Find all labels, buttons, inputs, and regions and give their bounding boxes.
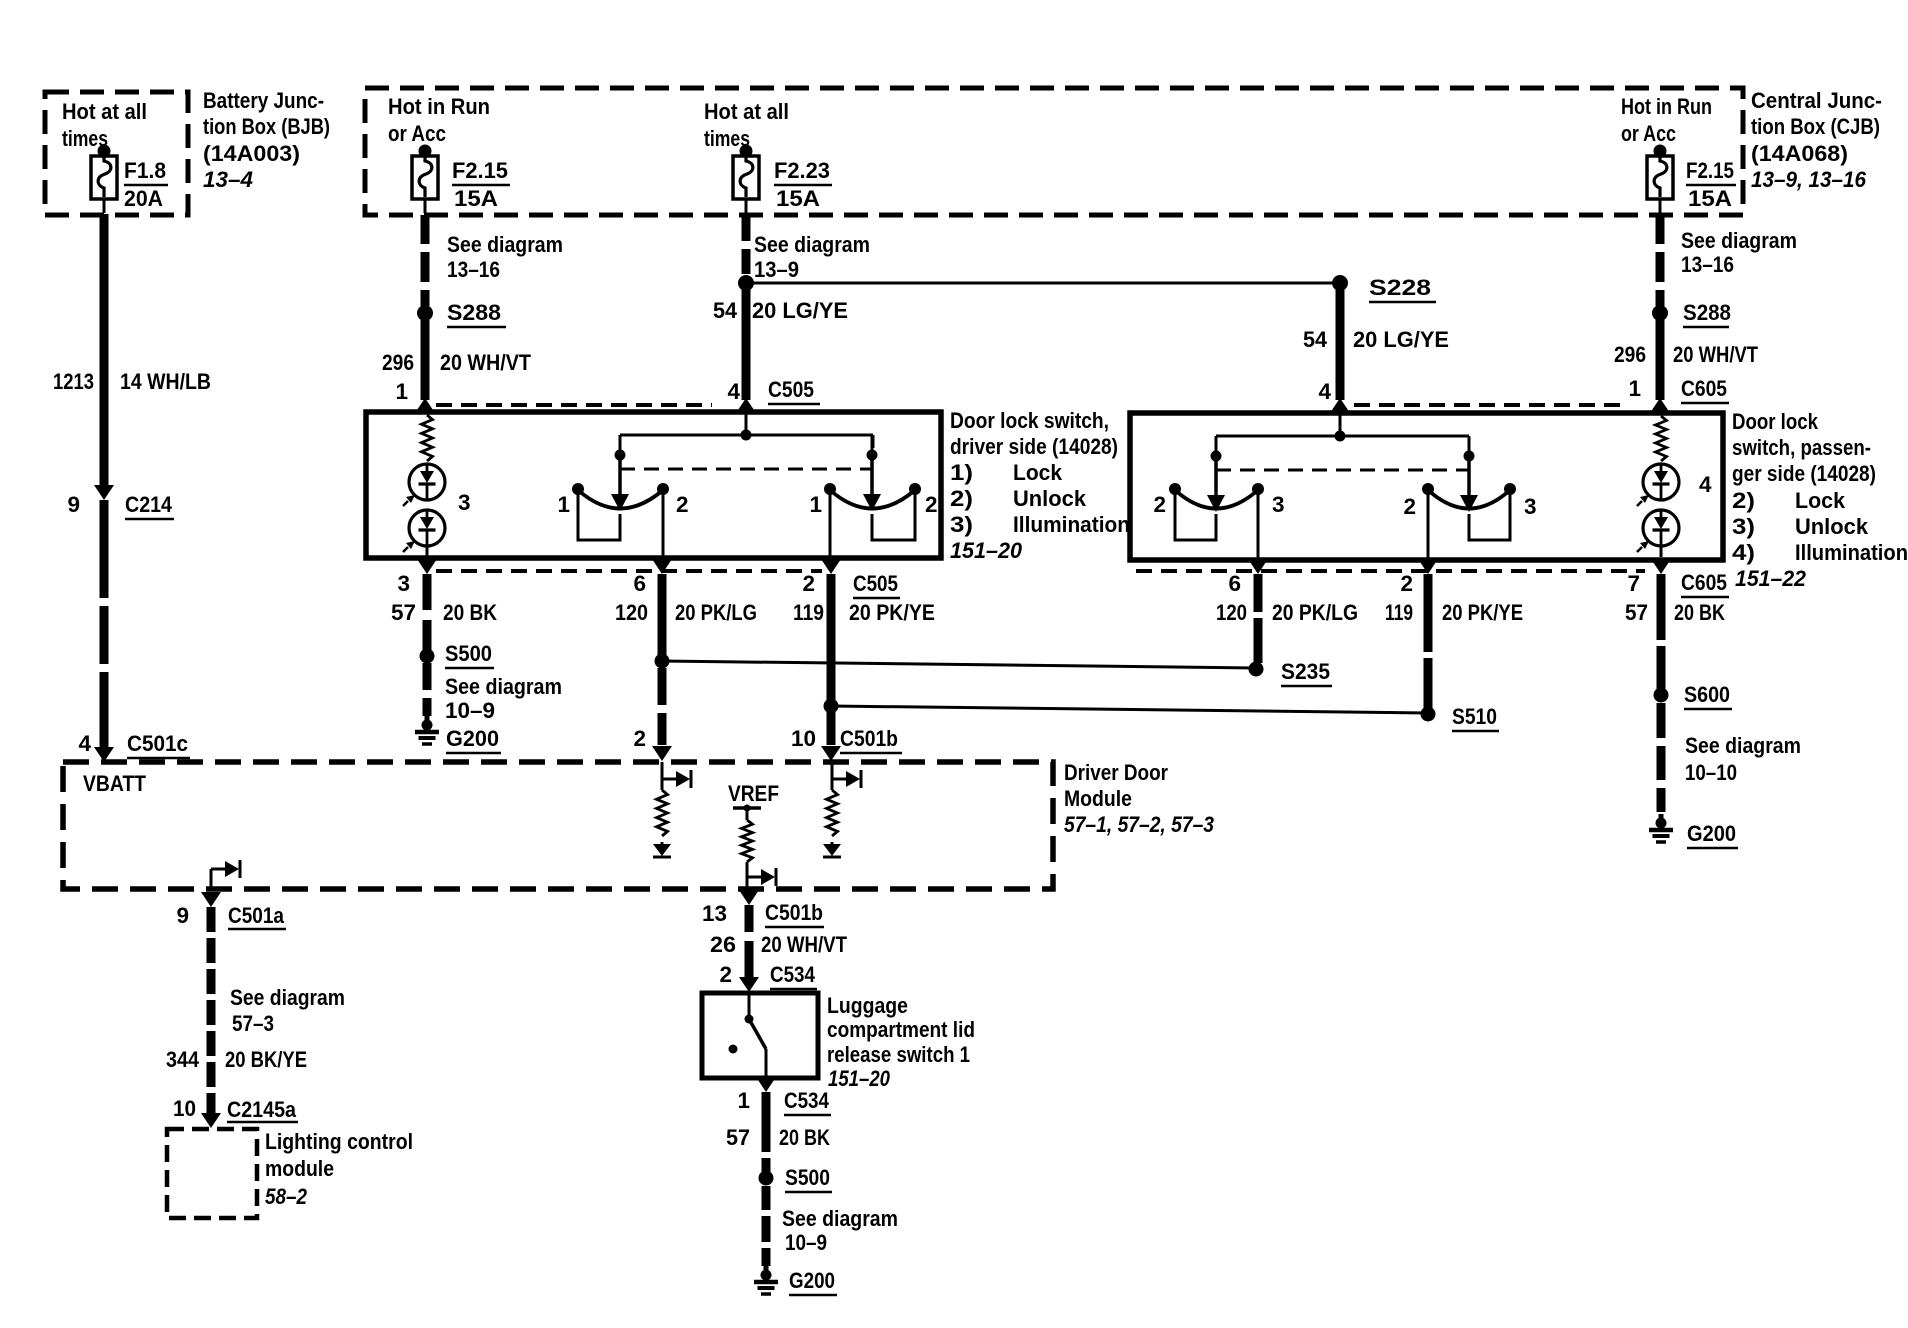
svg-text:4: 4 — [78, 731, 91, 756]
pin 2 arrow out of driver switch — [821, 559, 841, 574]
svg-text:20 PK/YE: 20 PK/YE — [1442, 600, 1523, 625]
svg-text:1: 1 — [395, 379, 408, 404]
pin 4 arrow into driver door lock switch — [736, 398, 756, 413]
svg-text:13–9, 13–16: 13–9, 13–16 — [1751, 167, 1866, 192]
svg-text:Hot in Run: Hot in Run — [1621, 94, 1712, 119]
svg-text:times: times — [62, 126, 108, 151]
svg-text:344: 344 — [166, 1047, 199, 1072]
pin 13 arrow out of module C501b — [739, 890, 759, 905]
svg-text:Illumination: Illumination — [1013, 512, 1130, 537]
svg-text:Luggage: Luggage — [827, 993, 908, 1018]
svg-text:switch, passen-: switch, passen- — [1732, 435, 1871, 460]
svg-text:F1.8: F1.8 — [124, 158, 166, 183]
svg-text:S288: S288 — [1683, 300, 1731, 325]
svg-text:10: 10 — [173, 1096, 196, 1121]
svg-text:2: 2 — [1403, 494, 1416, 519]
pin 10 arrow into lighting control module — [201, 1113, 221, 1128]
fuse F2.15 15A (right) — [1654, 145, 1667, 158]
splice S235 — [1249, 662, 1264, 677]
driver unlock switch (pins 1-2 right) — [867, 450, 878, 461]
svg-text:296: 296 — [382, 350, 414, 375]
driver door module box — [63, 762, 1053, 889]
door lock switch driver side box — [366, 412, 941, 558]
lighting control module box — [167, 1129, 257, 1218]
svg-text:151–20: 151–20 — [828, 1066, 890, 1091]
svg-text:57: 57 — [391, 600, 416, 625]
svg-text:release switch 1: release switch 1 — [827, 1042, 970, 1067]
svg-text:120: 120 — [1216, 600, 1247, 625]
svg-text:20 PK/LG: 20 PK/LG — [675, 600, 757, 625]
svg-text:Battery Junc-: Battery Junc- — [203, 88, 324, 113]
svg-text:C505: C505 — [853, 571, 898, 596]
pin 1 arrow into driver door lock switch — [415, 398, 435, 413]
svg-text:C2145a: C2145a — [227, 1097, 296, 1122]
splice S228 — [1332, 275, 1348, 291]
wire 54 20 LG/YE middle, splice to S228 — [742, 215, 751, 241]
mechanical link dashed (passenger) — [1216, 469, 1469, 472]
wire from C214 to C501c — [100, 500, 109, 598]
wire S500 to G200 (luggage) — [762, 1186, 771, 1210]
luggage switch contacts and blade — [748, 995, 751, 1016]
svg-text:10–9: 10–9 — [445, 698, 495, 723]
illumination lamp 2 driver — [409, 510, 445, 546]
svg-text:ger side (14028): ger side (14028) — [1732, 461, 1876, 486]
svg-text:54: 54 — [1303, 327, 1327, 352]
svg-text:13–4: 13–4 — [203, 167, 253, 192]
svg-text:2): 2) — [950, 486, 973, 511]
illumination lamp 1 driver — [409, 464, 445, 500]
wire 119 20 PK/YE passenger pin 2 to S510 — [1424, 574, 1433, 652]
svg-text:20 WH/VT: 20 WH/VT — [1673, 342, 1758, 367]
svg-text:13: 13 — [702, 901, 727, 926]
svg-text:20 PK/YE: 20 PK/YE — [849, 600, 935, 625]
svg-text:15A: 15A — [454, 186, 498, 211]
svg-text:1213: 1213 — [53, 369, 94, 394]
svg-text:See diagram: See diagram — [754, 232, 870, 257]
pin 2 arrow into luggage switch — [739, 977, 759, 992]
svg-text:3: 3 — [1272, 492, 1285, 517]
svg-text:2): 2) — [1732, 488, 1755, 513]
svg-text:57–1, 57–2, 57–3: 57–1, 57–2, 57–3 — [1064, 812, 1214, 837]
svg-text:20 WH/VT: 20 WH/VT — [761, 932, 847, 957]
svg-text:151–20: 151–20 — [950, 538, 1022, 563]
svg-text:C534: C534 — [784, 1088, 829, 1113]
svg-text:C501b: C501b — [765, 900, 823, 925]
driver switch feed tee — [741, 430, 752, 441]
svg-text:Module: Module — [1064, 786, 1132, 811]
svg-text:10–9: 10–9 — [785, 1230, 827, 1255]
svg-text:4: 4 — [1318, 379, 1331, 404]
svg-text:F2.15: F2.15 — [452, 158, 508, 183]
wire 57 20 BK passenger pin 7 to S600 — [1657, 574, 1666, 640]
svg-text:(14A003): (14A003) — [203, 141, 300, 166]
svg-text:6: 6 — [1228, 571, 1241, 596]
pin 1 arrow into passenger door lock switch — [1650, 398, 1670, 413]
svg-text:S235: S235 — [1281, 659, 1330, 684]
wire 344 20 BK/YE (dashed) to lighting control module — [207, 907, 216, 932]
svg-text:20 BK: 20 BK — [443, 600, 498, 625]
svg-text:151–22: 151–22 — [1735, 566, 1806, 591]
svg-text:4: 4 — [1699, 472, 1712, 497]
svg-text:120: 120 — [615, 600, 648, 625]
svg-text:F2.15: F2.15 — [1686, 158, 1734, 183]
svg-text:Lighting control: Lighting control — [265, 1129, 413, 1154]
svg-text:Door lock switch,: Door lock switch, — [950, 408, 1109, 433]
splice junction to S510 — [824, 699, 839, 714]
svg-text:9: 9 — [176, 903, 189, 928]
svg-text:57: 57 — [726, 1125, 750, 1150]
svg-text:20 BK/YE: 20 BK/YE — [225, 1047, 307, 1072]
pin 10 arrow into driver door module — [821, 746, 841, 761]
svg-text:57–3: 57–3 — [232, 1011, 274, 1036]
svg-text:4): 4) — [1732, 540, 1755, 565]
svg-text:1: 1 — [557, 492, 570, 517]
svg-text:or Acc: or Acc — [1621, 121, 1676, 146]
ground G200 (luggage) — [764, 1266, 769, 1276]
svg-text:20 BK: 20 BK — [779, 1125, 831, 1150]
svg-text:Illumination: Illumination — [1795, 540, 1908, 565]
module input pin 2: branch arrow and pull-up resistor — [661, 762, 664, 790]
wire 296 20 WH/VT left, splice S288 — [421, 215, 430, 244]
svg-text:2: 2 — [633, 726, 646, 751]
splice junction to S235 — [655, 654, 670, 669]
wire from splice to S228 — [746, 282, 1340, 285]
wire 26 20 WH/VT to luggage switch — [745, 905, 754, 932]
svg-text:15A: 15A — [1688, 186, 1732, 211]
svg-text:S288: S288 — [447, 300, 501, 325]
illumination resistor passenger — [1656, 416, 1667, 461]
svg-text:See diagram: See diagram — [1685, 733, 1801, 758]
wire 119 20 PK/YE driver pin 2 down — [827, 574, 836, 700]
wire 120 20 PK/LG passenger pin 6 to S235 — [1254, 574, 1263, 612]
passenger unlock switch (pins 2-3 right) — [1464, 451, 1475, 462]
svg-text:module: module — [265, 1156, 334, 1181]
svg-text:driver side (14028): driver side (14028) — [950, 434, 1118, 459]
svg-text:4: 4 — [727, 379, 740, 404]
svg-text:G200: G200 — [446, 726, 499, 751]
svg-text:Driver Door: Driver Door — [1064, 760, 1168, 785]
svg-text:54: 54 — [713, 298, 737, 323]
pin 6 arrow out of driver switch — [652, 559, 672, 574]
svg-text:1: 1 — [737, 1088, 750, 1113]
svg-text:Hot at all: Hot at all — [704, 99, 789, 124]
passenger lock switch (pins 2-3 left) — [1211, 451, 1222, 462]
svg-text:1): 1) — [950, 460, 973, 485]
connector C505 dashed line (top) — [436, 403, 712, 407]
svg-text:13–9: 13–9 — [754, 257, 799, 282]
fuse F2.15 15A (left) — [419, 145, 432, 158]
wire 296 20 WH/VT right, splice S288 — [1656, 215, 1665, 244]
connector C605 dashed line (bottom) — [1136, 569, 1645, 573]
svg-text:See diagram: See diagram — [230, 985, 345, 1010]
wire S600 to G200 — [1657, 703, 1666, 738]
svg-text:tion Box (BJB): tion Box (BJB) — [203, 114, 330, 139]
svg-text:20 BK: 20 BK — [1674, 600, 1726, 625]
svg-text:3): 3) — [950, 512, 973, 537]
svg-text:G200: G200 — [789, 1268, 835, 1293]
svg-text:S228: S228 — [1369, 275, 1431, 300]
wire 57 20 BK to S500 — [762, 1092, 771, 1152]
svg-text:compartment lid: compartment lid — [827, 1017, 975, 1042]
battery junction box (BJB) outline — [45, 92, 188, 215]
svg-text:1: 1 — [1628, 376, 1641, 401]
svg-text:C501c: C501c — [127, 731, 188, 756]
svg-text:3: 3 — [458, 490, 471, 515]
svg-text:C505: C505 — [768, 377, 814, 402]
svg-text:3: 3 — [397, 571, 410, 596]
illumination lamp 1 passenger — [1643, 464, 1679, 500]
splice S600 — [1654, 688, 1669, 703]
luggage compartment lid release switch 1 box — [702, 993, 818, 1078]
connector C214 arrow — [94, 485, 114, 500]
svg-text:9: 9 — [67, 492, 80, 517]
module internal branch to C501a — [210, 869, 213, 889]
svg-text:Unlock: Unlock — [1795, 514, 1868, 539]
svg-text:See diagram: See diagram — [782, 1206, 898, 1231]
svg-text:F2.23: F2.23 — [774, 158, 830, 183]
svg-text:20 WH/VT: 20 WH/VT — [440, 350, 531, 375]
svg-text:See diagram: See diagram — [447, 232, 563, 257]
splice S510 — [1421, 707, 1436, 722]
wire 120 20 PK/LG driver pin 6 down — [658, 574, 667, 656]
svg-text:10: 10 — [791, 726, 816, 751]
svg-text:2: 2 — [719, 962, 732, 987]
svg-text:20 LG/YE: 20 LG/YE — [752, 298, 848, 323]
fuse F2.23 15A (middle) — [740, 145, 753, 158]
pin 7 arrow out of passenger switch — [1651, 559, 1671, 574]
svg-text:2: 2 — [1400, 571, 1413, 596]
connector C605 dashed line (top) — [1354, 403, 1628, 407]
svg-text:1: 1 — [809, 492, 822, 517]
svg-text:S500: S500 — [785, 1165, 830, 1190]
svg-text:S510: S510 — [1452, 704, 1497, 729]
svg-text:6: 6 — [633, 571, 646, 596]
illumination resistor driver — [422, 415, 433, 461]
svg-text:Door lock: Door lock — [1732, 409, 1818, 434]
svg-text:3): 3) — [1732, 514, 1755, 539]
svg-text:15A: 15A — [776, 186, 820, 211]
pin 3 arrow out of driver switch — [417, 559, 437, 574]
pin 2 arrow out of passenger switch — [1418, 559, 1438, 574]
pin 6 arrow out of passenger switch — [1248, 559, 1268, 574]
passenger switch feed tee — [1335, 431, 1346, 442]
svg-text:or Acc: or Acc — [388, 121, 446, 146]
svg-text:Hot in Run: Hot in Run — [388, 94, 490, 119]
ground G200 (driver switch) — [425, 716, 430, 726]
door lock switch passenger side box — [1130, 413, 1723, 560]
svg-text:tion Box (CJB): tion Box (CJB) — [1751, 114, 1880, 139]
svg-text:20 LG/YE: 20 LG/YE — [1353, 327, 1449, 352]
svg-text:G200: G200 — [1687, 821, 1736, 846]
svg-text:57: 57 — [1625, 600, 1648, 625]
wire 1213 14 WH/LB from BJB to C214 — [100, 214, 109, 486]
pin 9 arrow out of module to C501a — [201, 892, 221, 907]
svg-text:Hot at all: Hot at all — [62, 99, 147, 124]
pin 4 arrow into passenger door lock switch — [1330, 398, 1350, 413]
connector C505 dashed line (bottom) — [436, 569, 822, 573]
svg-text:13–16: 13–16 — [447, 257, 500, 282]
pin 2 arrow into driver door module — [652, 746, 672, 761]
driver lock switch (pins 1-2 left) — [615, 450, 626, 461]
svg-text:2: 2 — [802, 571, 815, 596]
splice S500 — [420, 649, 435, 664]
svg-text:119: 119 — [1385, 600, 1413, 625]
svg-text:(14A068): (14A068) — [1751, 141, 1848, 166]
svg-text:VBATT: VBATT — [83, 771, 146, 796]
fuse F1.8 20A — [98, 145, 111, 158]
svg-text:C534: C534 — [770, 962, 815, 987]
svg-text:S500: S500 — [445, 641, 492, 666]
splice S500 (luggage) — [759, 1171, 774, 1186]
svg-text:20A: 20A — [124, 186, 163, 211]
svg-text:See diagram: See diagram — [445, 674, 562, 699]
svg-text:C501b: C501b — [840, 726, 898, 751]
svg-text:58–2: 58–2 — [265, 1184, 307, 1209]
svg-text:Lock: Lock — [1013, 460, 1062, 485]
svg-text:10–10: 10–10 — [1685, 760, 1737, 785]
wire 54 20 LG/YE to passenger switch pin 4 — [1336, 283, 1345, 400]
svg-text:2: 2 — [676, 492, 689, 517]
ground G200 (passenger switch) — [1659, 814, 1664, 824]
connector C501c arrow — [94, 747, 114, 762]
svg-text:C605: C605 — [1681, 376, 1727, 401]
svg-text:20 PK/LG: 20 PK/LG — [1272, 600, 1358, 625]
svg-text:3: 3 — [1524, 494, 1537, 519]
central junction box (CJB) outline — [365, 88, 1743, 215]
pin 1 arrow out of luggage switch — [756, 1077, 776, 1092]
svg-text:7: 7 — [1627, 571, 1640, 596]
svg-text:S600: S600 — [1684, 682, 1730, 707]
svg-text:13–16: 13–16 — [1681, 252, 1734, 277]
mechanical link dashed — [620, 468, 873, 471]
svg-text:Central Junc-: Central Junc- — [1751, 88, 1882, 113]
svg-text:Lock: Lock — [1795, 488, 1845, 513]
svg-text:C214: C214 — [125, 492, 172, 517]
svg-text:119: 119 — [793, 600, 824, 625]
svg-text:See diagram: See diagram — [1681, 228, 1797, 253]
svg-text:2: 2 — [1153, 492, 1166, 517]
wire 57 20 BK to S500 — [423, 574, 432, 610]
illumination lamp 2 passenger — [1643, 510, 1679, 546]
svg-text:296: 296 — [1614, 342, 1646, 367]
svg-text:VREF: VREF — [728, 781, 779, 806]
wire S500 to G200 — [423, 663, 432, 690]
svg-text:C501a: C501a — [228, 903, 284, 928]
svg-text:14 WH/LB: 14 WH/LB — [120, 369, 211, 394]
module input pin 10: branch arrow and pull-up resistor — [831, 762, 834, 790]
svg-text:C605: C605 — [1681, 570, 1727, 595]
svg-text:Unlock: Unlock — [1013, 486, 1086, 511]
svg-text:2: 2 — [925, 492, 938, 517]
svg-text:26: 26 — [710, 932, 736, 957]
